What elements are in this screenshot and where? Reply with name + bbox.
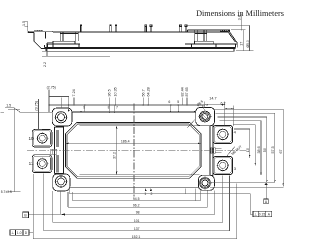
svg-text:50: 50 bbox=[263, 148, 267, 152]
side view screw bumps bbox=[35, 30, 42, 31]
svg-text:96.2: 96.2 bbox=[133, 203, 140, 207]
svg-text:⊥: ⊥ bbox=[254, 213, 257, 217]
svg-text:10: 10 bbox=[28, 136, 34, 141]
terminal block left upper bbox=[32, 130, 52, 148]
side view pin pair B bbox=[180, 25, 187, 32]
svg-text:1: 1 bbox=[144, 192, 146, 196]
svg-text:101: 101 bbox=[134, 219, 140, 223]
side view right notch detail bbox=[220, 30, 228, 32]
svg-text:37.2: 37.2 bbox=[113, 152, 117, 159]
right elbow 67 bbox=[213, 109, 283, 186]
svg-text:36.5: 36.5 bbox=[108, 89, 112, 96]
right extension body bottom bbox=[210, 187, 284, 189]
lid corner detail line bbox=[187, 120, 195, 128]
svg-text:9: 9 bbox=[83, 106, 85, 110]
svg-text:(2.75): (2.75) bbox=[47, 85, 56, 89]
mounting hole bottom-left bbox=[55, 175, 68, 188]
right dim end arrows bbox=[249, 155, 284, 186]
dim 96.2 bbox=[68, 191, 208, 208]
dimension 37.2 internal bbox=[113, 126, 118, 175]
far left vertical dim bbox=[1, 109, 21, 194]
side view pin x110.5 bbox=[109, 25, 111, 32]
svg-text:94.5: 94.5 bbox=[133, 197, 140, 201]
right elbow 10 bbox=[234, 129, 250, 158]
svg-text:6.2: 6.2 bbox=[221, 101, 226, 105]
dim (3.75) left rotated bbox=[34, 99, 42, 130]
mounting hole top-right (hatched) bbox=[199, 110, 212, 123]
svg-text:57.5: 57.5 bbox=[271, 146, 275, 153]
right elbow 38.6 bbox=[220, 121, 262, 175]
lid recess edges bbox=[80, 126, 200, 175]
side view baseplate bar bbox=[45, 44, 236, 49]
datum A arrow and box bbox=[264, 183, 269, 204]
side view left foot blocks bbox=[48, 41, 80, 47]
dim 98 with datum B bbox=[23, 191, 215, 218]
svg-text:137: 137 bbox=[134, 227, 140, 231]
tolerance frame right bbox=[250, 194, 271, 217]
right elbow 50 bbox=[218, 117, 267, 182]
interlock connector left bbox=[51, 149, 57, 154]
dim 137 bbox=[44, 174, 230, 232]
tab bottom-left bbox=[53, 174, 70, 191]
svg-text:38.6: 38.6 bbox=[257, 146, 261, 153]
left terminal platform bbox=[55, 127, 64, 174]
side view right slanted end bbox=[228, 30, 237, 48]
interlock connector right bbox=[211, 148, 222, 154]
svg-text:(3.75): (3.75) bbox=[34, 101, 38, 111]
dim 14.7 bbox=[205, 97, 225, 126]
dim 101 bbox=[53, 176, 223, 224]
right elbow mid bbox=[233, 125, 255, 165]
svg-text:6: 6 bbox=[168, 100, 170, 104]
tab top-left bbox=[52, 108, 72, 126]
side view right foot blocks bbox=[192, 41, 217, 47]
svg-text:10: 10 bbox=[246, 148, 250, 152]
svg-text:7.24: 7.24 bbox=[72, 89, 76, 96]
terminal block left lower bbox=[32, 155, 52, 173]
side view right terminal towers bbox=[195, 30, 207, 41]
svg-text:56.7: 56.7 bbox=[141, 89, 145, 96]
top dim extension verticals bbox=[74, 98, 187, 112]
side view top edge left segment bbox=[28, 30, 230, 33]
side view pin pair A bbox=[145, 25, 152, 32]
right terminal platform bbox=[210, 125, 213, 176]
svg-text:186.4: 186.4 bbox=[121, 140, 130, 144]
top dim arrow dots bbox=[48, 104, 195, 113]
top dim main line bbox=[49, 104, 205, 106]
side view baseplate lower lip bbox=[46, 49, 234, 52]
svg-text:7: 7 bbox=[116, 106, 118, 110]
side view body bottom edge segments bbox=[48, 43, 238, 45]
svg-text:3.8: 3.8 bbox=[238, 15, 242, 20]
terminal block right upper bbox=[213, 125, 233, 143]
terminal block right lower bbox=[213, 156, 233, 174]
dim 6.2 bbox=[221, 101, 234, 126]
center line vertical bbox=[133, 104, 135, 197]
dim 94.5 bbox=[73, 189, 201, 202]
svg-text:2: 2 bbox=[151, 192, 153, 196]
svg-text:87.65: 87.65 bbox=[185, 87, 189, 96]
plan body outline bbox=[64, 112, 210, 188]
svg-text:2.2: 2.2 bbox=[43, 62, 47, 67]
svg-text:64.28: 64.28 bbox=[147, 87, 151, 96]
svg-text:0.15: 0.15 bbox=[259, 213, 266, 217]
center line horizontal bbox=[27, 149, 247, 151]
lid octagon inner bbox=[67, 124, 199, 177]
lid octagon outer bbox=[65, 122, 201, 178]
svg-text:82.44: 82.44 bbox=[180, 87, 184, 96]
svg-text:152.1: 152.1 bbox=[132, 235, 141, 239]
svg-text:⊥: ⊥ bbox=[11, 231, 14, 235]
svg-text:5.7±0.5: 5.7±0.5 bbox=[1, 190, 12, 194]
svg-text:11: 11 bbox=[29, 161, 34, 166]
svg-text:10.35: 10.35 bbox=[114, 87, 118, 96]
svg-text:98: 98 bbox=[136, 211, 140, 215]
svg-text:14.7: 14.7 bbox=[209, 97, 216, 101]
side view left terminal outline bbox=[34, 32, 53, 49]
svg-text:1.5: 1.5 bbox=[6, 103, 11, 107]
tab bottom-right bbox=[198, 175, 214, 190]
svg-text:17: 17 bbox=[239, 42, 243, 46]
leader 1.5 plan bbox=[1, 103, 53, 112]
svg-text:8: 8 bbox=[108, 106, 110, 110]
svg-text:5: 5 bbox=[177, 100, 179, 104]
dimension 186.4 internal bbox=[65, 140, 201, 145]
mounting hole top-left bbox=[55, 111, 68, 124]
side view small pin x81 bbox=[80, 25, 82, 32]
side view left terminal towers bbox=[60, 32, 78, 41]
tolerance frame bottom-left bbox=[10, 230, 33, 236]
dim 152.1 bbox=[33, 174, 236, 239]
mounting hole bottom-right bbox=[198, 176, 211, 189]
svg-text:1.0: 1.0 bbox=[17, 231, 22, 235]
extension above tab TL bbox=[61, 98, 63, 109]
tab top-right bbox=[196, 107, 215, 125]
side view pin x116 bbox=[115, 25, 117, 32]
svg-text:67: 67 bbox=[279, 149, 283, 153]
right extension tab center bbox=[211, 181, 275, 183]
small arrows 1 and 2 bbox=[134, 186, 153, 197]
aux dim line 0 bbox=[69, 189, 250, 201]
right elbow 57.5 bbox=[216, 113, 275, 182]
